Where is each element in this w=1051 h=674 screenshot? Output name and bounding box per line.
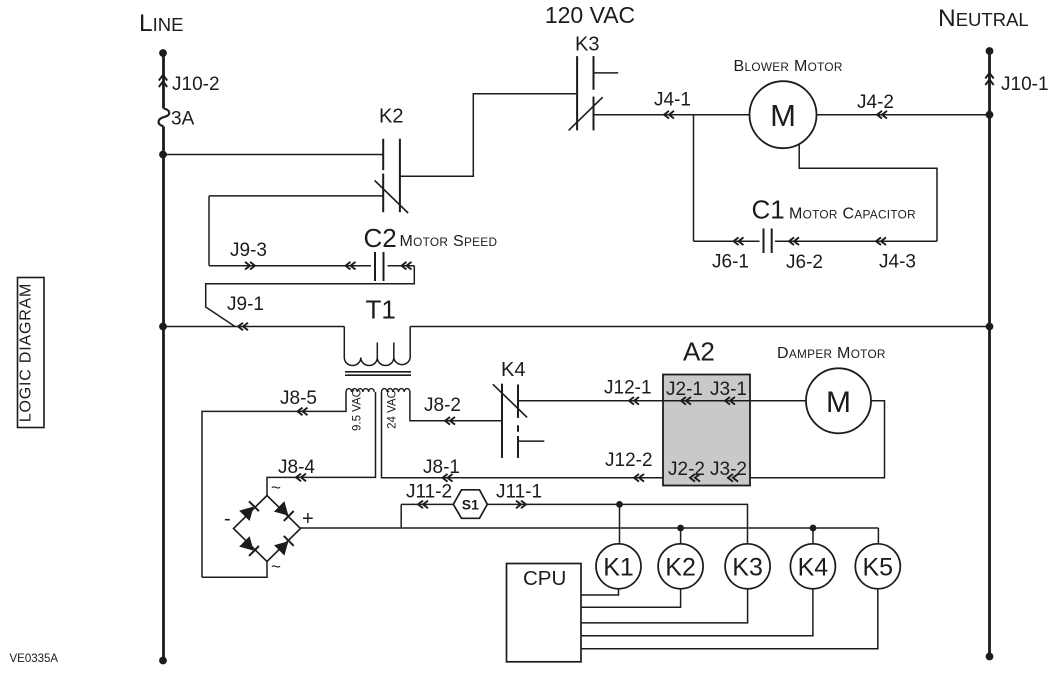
connector J8-5 arrow [298,408,308,416]
svg-text:DAMPER MOTOR: DAMPER MOTOR [777,345,886,362]
module A2 block [663,375,750,486]
wire Line rail (left vertical bus) [162,53,165,661]
wire C1 row riser to motor return [799,144,937,242]
node Neutral rail junction at transformer row [986,323,994,331]
svg-text:J8-1: J8-1 [423,457,460,478]
svg-text:J4-1: J4-1 [654,90,691,111]
svg-text:A2: A2 [683,337,715,367]
connector C2 right arrow [402,262,412,270]
relay coil K4 [790,544,835,589]
svg-text:LINE: LINE [139,10,183,37]
wire K1 coil to CPU [581,589,619,595]
node junction above K1 coil [616,501,623,508]
connector J3-2 arrow [728,474,738,482]
wire bridge to 9.5VAC winding (J8-4 net) [267,392,376,496]
node junction above K2 coil [677,525,684,532]
svg-text:J8-4: J8-4 [278,457,315,478]
svg-text:T1: T1 [366,295,396,325]
node Neutral rail top junction [986,47,994,55]
connector C2 left arrow [346,262,356,270]
connector J10-2 arrow [159,75,167,87]
wire C2 row left segment [209,265,371,267]
wire C2 row right segment [388,265,415,267]
node Line rail top junction [159,49,167,57]
connector J12-1 arrow [629,397,639,405]
svg-text:J2-2: J2-2 [668,459,705,480]
svg-text:J4-3: J4-3 [879,252,916,273]
svg-text:J2-1: J2-1 [666,379,703,400]
connector J2-2 arrow [690,474,700,482]
svg-text:~: ~ [271,478,281,497]
motor M2 Damper Motor [806,368,871,433]
wire Line rail to transformer primary [163,326,344,328]
switch S1 hexagon [453,490,487,519]
svg-text:J10-1: J10-1 [1001,74,1049,95]
wire C1 row right segment [775,240,937,242]
wire damper motor return loop [750,401,885,478]
wire C1 row left segment [694,240,760,242]
connector J11-2 arrow [418,501,428,509]
wire J12-1 through A2 [663,400,750,402]
connector J12-2 arrow [634,474,644,482]
svg-text:M: M [770,98,796,133]
connector J10-1 arrow [985,73,993,85]
svg-text:3A: 3A [171,109,195,130]
wire Neutral rail (right vertical bus) [988,51,991,657]
node Line rail junction at transformer row [159,323,167,331]
bridge rectifier BR1 [234,496,301,562]
node Neutral rail bottom terminal [986,653,994,661]
svg-text:BLOWER MOTOR: BLOWER MOTOR [734,58,843,75]
wire K2 coil to CPU [581,589,681,608]
svg-text:J9-1: J9-1 [227,294,264,315]
connector J8-4 arrow [296,474,306,482]
wire blower motor to Neutral rail (J4-2 net) [817,114,990,116]
connector J3-1 arrow [725,397,735,405]
wire K4 coil feed [812,528,814,544]
connector J8-2 arrow [445,417,455,425]
connector J6-2 arrow [789,237,799,245]
wire K3 coil to CPU [581,589,748,623]
wire 9.5VAC winding left lead to J8-5 [202,392,346,577]
svg-text:K3: K3 [575,34,599,56]
wire K5 coil to CPU [581,589,878,649]
node junction above K4 coil [810,525,817,532]
wire K2 coil feed [680,528,682,544]
svg-text:J3-2: J3-2 [710,459,747,480]
capacitor C2 [375,252,384,281]
wire K4 coil to CPU [581,589,813,636]
wire K4 lower throw stub [518,440,544,442]
svg-text:J9-3: J9-3 [230,240,267,261]
wire J4-1 node down to C1 row [693,115,695,242]
wire bridge plus output row [301,527,879,529]
wire K3 upper throw stub [594,72,619,74]
svg-text:K3: K3 [732,553,763,581]
svg-text:M: M [826,386,851,419]
connector J4-2 arrow [877,111,887,119]
svg-text:VE0335A: VE0335A [10,653,59,665]
connector J8-1 arrow [443,474,453,482]
connector J9-3 arrow [245,262,255,270]
wire S1 row right to K3 coil [487,504,747,543]
svg-text:C1: C1 [752,194,785,224]
svg-text:CPU: CPU [523,567,566,590]
connector J9-1 arrow [238,323,248,331]
wire K2 common output to K3 [400,94,577,177]
wire bridge bottom loop [202,562,267,578]
wire K2 lower throw input [209,195,383,197]
wire Line rail to K2 [163,154,383,156]
connector J4-1 arrow [664,111,674,119]
svg-text:9.5 VAC: 9.5 VAC [352,389,364,431]
svg-text:MOTOR CAPACITOR: MOTOR CAPACITOR [789,205,916,222]
relay coil K2 [658,544,703,589]
module CPU box [507,564,582,662]
svg-text:S1: S1 [462,497,479,513]
svg-text:J11-2: J11-2 [406,482,452,503]
svg-text:J8-2: J8-2 [424,395,461,416]
transformer T1 [344,327,411,393]
relay contact K2 (changeover) [375,139,409,213]
svg-text:K2: K2 [379,106,403,128]
wire 24VAC winding right lead to K4 (J8-2 net) [410,392,502,421]
svg-text:K1: K1 [603,553,634,581]
connector J11-1 arrow [516,501,526,509]
wire C2 return loop to J9-1 [206,266,415,327]
relay coil K5 [855,544,900,589]
node Line rail junction at K2 branch [159,151,167,159]
relay contact K3 (changeover, NC slashed) [569,56,603,130]
svg-text:-: - [224,508,231,530]
svg-text:J4-2: J4-2 [857,92,894,113]
svg-text:~: ~ [271,557,281,576]
svg-text:120 VAC: 120 VAC [545,2,635,28]
LOGIC DIAGRAM title box [18,278,45,428]
fuse 3A [159,109,170,127]
wire 24VAC winding left lead to A2 (J8-1 / J12-2 net) [382,392,664,478]
svg-text:J12-1: J12-1 [604,378,652,399]
relay contact K4 (changeover, NC slashed) [493,384,527,458]
wire K5 coil feed [877,528,879,544]
svg-text:K2: K2 [665,553,696,581]
svg-text:J6-2: J6-2 [786,252,823,273]
svg-text:J12-2: J12-2 [605,450,653,471]
connector J4-3 arrow [876,237,886,245]
svg-text:K5: K5 [863,553,894,581]
wire K3 output to blower motor (J4-1 net) [594,114,750,116]
wire K2 lower throw to C2 row [208,196,210,266]
node Line rail bottom terminal [159,657,167,665]
svg-text:J10-2: J10-2 [172,74,220,95]
capacitor C1 [764,229,772,254]
svg-text:MOTOR SPEED: MOTOR SPEED [400,233,498,250]
svg-text:C2: C2 [364,223,397,253]
svg-text:24 VAC: 24 VAC [387,390,399,429]
svg-text:K4: K4 [798,553,829,581]
relay coil K3 [725,544,770,589]
wire transformer primary to Neutral rail [410,326,989,328]
connector J6-1 arrow [734,237,744,245]
motor M1 Blower Motor [750,81,817,148]
svg-text:+: + [302,508,314,530]
svg-text:J11-1: J11-1 [496,482,542,503]
wire K1 coil feed [619,504,621,543]
svg-text:K4: K4 [501,359,525,381]
svg-text:J8-5: J8-5 [280,388,317,409]
relay coil K1 [596,544,641,589]
wire K4 to damper motor (J12-1 net) [518,400,806,402]
svg-text:LOGIC DIAGRAM: LOGIC DIAGRAM [18,283,35,422]
connector J2-1 arrow [681,397,691,405]
wire branch up to S1 row [400,504,402,528]
svg-text:NEUTRAL: NEUTRAL [938,5,1029,32]
node Neutral rail junction at J4-2 [986,111,994,119]
wire S1 row left [401,503,453,505]
svg-text:J3-1: J3-1 [710,379,747,400]
svg-text:J6-1: J6-1 [712,252,749,273]
